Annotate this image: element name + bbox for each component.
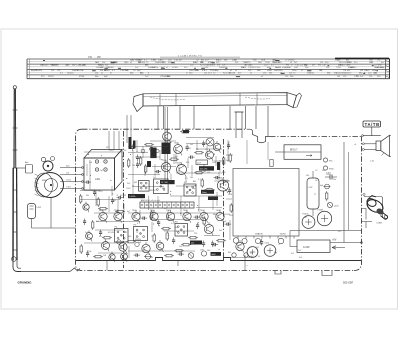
supply wire +9V bbox=[290, 231, 363, 247]
resistor R222 bbox=[128, 158, 130, 168]
svg-text:4n7: 4n7 bbox=[251, 256, 254, 258]
svg-text:33k: 33k bbox=[269, 73, 272, 75]
resistor R302 bbox=[166, 231, 168, 241]
resistor R224 bbox=[98, 208, 108, 210]
IF section divider bbox=[223, 139, 225, 258]
diode D210 bbox=[116, 240, 122, 244]
electrolytic C404 bbox=[317, 209, 331, 225]
svg-text:12k: 12k bbox=[289, 73, 292, 75]
svg-text:R66: R66 bbox=[222, 172, 225, 174]
svg-text:0.1: 0.1 bbox=[137, 223, 140, 225]
svg-text:68p: 68p bbox=[192, 188, 195, 190]
svg-text:100u: 100u bbox=[278, 70, 282, 72]
connector plate TA/TB bbox=[363, 121, 381, 136]
resistor R120 bbox=[93, 256, 103, 258]
IF transformer Fi1 bbox=[154, 177, 169, 194]
GRUNDIG logo bbox=[18, 281, 33, 285]
svg-text:15k: 15k bbox=[66, 173, 69, 175]
capacitor C130 bbox=[270, 160, 273, 167]
capacitor C234 bbox=[93, 190, 96, 197]
transistor T309 bbox=[204, 222, 213, 235]
transistor T313 bbox=[156, 240, 164, 252]
capacitor C236 bbox=[85, 181, 92, 184]
svg-text:C111: C111 bbox=[255, 247, 259, 249]
svg-text:33k: 33k bbox=[138, 239, 141, 241]
resistor R303 bbox=[188, 237, 198, 239]
svg-text:560: 560 bbox=[128, 236, 131, 238]
bus stub 3 bbox=[177, 261, 179, 266]
svg-text:AM: AM bbox=[193, 180, 196, 183]
resistor R231 bbox=[203, 216, 205, 226]
svg-text:8k2: 8k2 bbox=[134, 182, 137, 184]
IC U1 TBA audio amplifier bbox=[233, 169, 299, 239]
svg-text:15k: 15k bbox=[243, 67, 246, 69]
transistor T203 bbox=[177, 162, 187, 176]
transistor T304 bbox=[150, 210, 158, 223]
transistor T402 bbox=[233, 238, 239, 244]
capacitor C237 bbox=[99, 230, 102, 237]
svg-text:560: 560 bbox=[186, 162, 189, 164]
table header text 150 bbox=[88, 55, 203, 59]
svg-text:100u: 100u bbox=[292, 70, 296, 72]
resistor R223 bbox=[97, 197, 99, 207]
svg-text:IS250: IS250 bbox=[280, 234, 286, 236]
svg-text:47n: 47n bbox=[99, 236, 102, 238]
svg-text:6p8: 6p8 bbox=[138, 242, 141, 244]
label plate D455k (dark) bbox=[128, 194, 145, 198]
svg-text:L201: L201 bbox=[95, 178, 101, 181]
wire bus to speaker bbox=[344, 142, 349, 243]
electrolytic C406 bbox=[264, 243, 276, 257]
chassis support wires bbox=[158, 106, 268, 136]
coil L2 (dark) bbox=[129, 137, 132, 149]
tuner shaft wire bbox=[51, 198, 76, 229]
svg-text:8k2: 8k2 bbox=[175, 227, 178, 229]
resistor R304 bbox=[174, 250, 184, 252]
capacitor C402 pair bbox=[325, 173, 337, 180]
capacitor C241 bbox=[194, 216, 201, 219]
svg-text:12k: 12k bbox=[204, 73, 207, 75]
ground bus bbox=[76, 258, 361, 261]
capacitor C142 bbox=[200, 250, 207, 257]
svg-text:4 L-5 AB 1 MODELL F10: 4 L-5 AB 1 MODELL F10 bbox=[178, 55, 203, 58]
loudspeaker LS bbox=[370, 135, 391, 162]
svg-text:3n3: 3n3 bbox=[219, 230, 222, 232]
trimmer row bbox=[141, 147, 159, 153]
wire antenna to board bbox=[21, 268, 80, 272]
coil L3 (dark) bbox=[133, 141, 136, 149]
capacitor C231 bbox=[155, 170, 162, 173]
svg-text:2n2: 2n2 bbox=[169, 142, 172, 144]
coil L1 (dark) bbox=[147, 161, 151, 167]
resistor R233 bbox=[230, 203, 232, 213]
transistor T303 bbox=[132, 210, 140, 223]
transistor T312 bbox=[142, 242, 150, 255]
svg-text:10.7: 10.7 bbox=[315, 180, 319, 182]
capacitor C235 bbox=[111, 198, 114, 205]
svg-text:3n3: 3n3 bbox=[299, 257, 302, 259]
svg-text:150 . . . 188: 150 . . . 188 bbox=[88, 56, 101, 59]
transistor T202 bbox=[161, 160, 170, 173]
svg-text:12k: 12k bbox=[39, 70, 42, 72]
trimmer R401 bbox=[323, 158, 332, 162]
IF transformer Fi5 bbox=[134, 225, 148, 241]
mixer circle M1 bbox=[206, 138, 214, 146]
svg-text:KLBR: KLBR bbox=[377, 223, 383, 225]
resistor R305 bbox=[126, 241, 136, 243]
svg-text:47n: 47n bbox=[184, 67, 187, 69]
svg-text:3n3: 3n3 bbox=[150, 257, 153, 259]
svg-text:T2: T2 bbox=[314, 194, 316, 196]
transistor T403 bbox=[242, 238, 247, 243]
svg-text:T204: T204 bbox=[87, 251, 91, 253]
chassis / dial assembly bbox=[133, 93, 302, 112]
label plate (dark) AGC bbox=[211, 252, 222, 256]
capacitor C246 (dark) bbox=[183, 130, 189, 133]
svg-text:33k: 33k bbox=[135, 239, 138, 241]
resistor R403 bbox=[326, 191, 328, 201]
svg-text:455 kHz: 455 kHz bbox=[200, 169, 207, 171]
IF transformer Fi6 bbox=[175, 222, 188, 237]
transistor T305 bbox=[166, 210, 174, 223]
board edge tab 2 bbox=[275, 271, 281, 275]
transistor T404 bbox=[255, 238, 260, 243]
telescopic antenna ANT1 bbox=[12, 86, 22, 272]
svg-text:15k: 15k bbox=[212, 65, 215, 67]
svg-text:8k2: 8k2 bbox=[228, 252, 231, 254]
transistor T401 bbox=[236, 240, 244, 253]
board edge tab 1 bbox=[322, 271, 332, 276]
svg-text:AGC: AGC bbox=[212, 253, 217, 256]
capacitor C111 bbox=[86, 251, 89, 258]
capacitor C201 (dark) bbox=[150, 148, 156, 159]
svg-text:2SA101: 2SA101 bbox=[307, 72, 315, 75]
svg-text:1p5: 1p5 bbox=[100, 170, 103, 172]
svg-text:560: 560 bbox=[207, 250, 210, 252]
svg-text:C118: C118 bbox=[126, 188, 130, 190]
svg-text:15k: 15k bbox=[95, 73, 98, 75]
transistor T102 bbox=[86, 230, 93, 241]
oscillator coil L5 bbox=[206, 149, 214, 161]
electrolytic C405 bbox=[247, 247, 258, 258]
svg-text:FM: FM bbox=[318, 65, 321, 67]
ceramic filter CF10.7 bbox=[275, 145, 321, 160]
svg-text:47n: 47n bbox=[354, 62, 357, 64]
trimmer R404 bbox=[327, 202, 339, 207]
svg-text:15k: 15k bbox=[333, 179, 336, 181]
svg-text:4n7: 4n7 bbox=[164, 208, 167, 210]
IF transformer Fi2 bbox=[139, 181, 150, 192]
resistor R301 bbox=[153, 233, 155, 243]
interconnect wires bbox=[80, 138, 268, 259]
transistor T205 bbox=[213, 141, 221, 153]
capacitor C240 bbox=[172, 238, 175, 245]
earphone jack BU1 bbox=[362, 193, 388, 228]
svg-text:+9V: +9V bbox=[332, 239, 337, 242]
capacitor C140 bbox=[134, 254, 141, 257]
capacitor C244 bbox=[228, 188, 231, 195]
svg-text:C118: C118 bbox=[326, 174, 330, 176]
arrow into output box bbox=[332, 246, 345, 249]
svg-text:4k7: 4k7 bbox=[96, 221, 99, 223]
svg-text:TBA570: TBA570 bbox=[255, 233, 264, 236]
svg-text:C9: C9 bbox=[196, 149, 198, 151]
capacitor C202 (dark) bbox=[162, 139, 171, 155]
svg-text:P1k: P1k bbox=[329, 160, 332, 162]
svg-text:TA/TB: TA/TB bbox=[365, 122, 380, 127]
svg-text:1n5: 1n5 bbox=[85, 232, 88, 234]
filter box FL1 bbox=[196, 160, 208, 165]
svg-text:500 GB7: 500 GB7 bbox=[343, 281, 354, 285]
capacitor C110 bbox=[83, 219, 86, 226]
svg-text:MW: MW bbox=[257, 70, 261, 72]
wires into ferrite box bbox=[109, 131, 119, 150]
capacitor C302 bbox=[202, 241, 205, 248]
transistor T310 bbox=[102, 239, 110, 251]
svg-text:BC148: BC148 bbox=[120, 195, 126, 197]
svg-text:4n7: 4n7 bbox=[127, 211, 130, 213]
label plate LIN (dark) bbox=[208, 197, 218, 201]
capacitor C230 bbox=[202, 141, 205, 148]
svg-text:2n2: 2n2 bbox=[298, 250, 301, 252]
svg-text:TS403: TS403 bbox=[317, 209, 324, 211]
svg-text:560: 560 bbox=[306, 175, 309, 177]
resistor R235 bbox=[229, 153, 231, 163]
svg-text:0.1: 0.1 bbox=[185, 178, 188, 180]
label plate Ratio (dark) bbox=[201, 190, 214, 194]
svg-text:12k: 12k bbox=[102, 62, 105, 64]
svg-text:D 455k: D 455k bbox=[129, 196, 135, 198]
label plate 455kHz (dark) bbox=[199, 166, 214, 170]
resistor R220 bbox=[223, 156, 225, 166]
resistor R228 bbox=[151, 210, 153, 220]
svg-text:L204: L204 bbox=[212, 162, 216, 164]
volume control shaft bbox=[235, 112, 244, 138]
transistor T115 bbox=[109, 252, 115, 263]
component value labels bbox=[85, 142, 341, 259]
svg-text:C118: C118 bbox=[98, 191, 102, 193]
capacitor C301 bbox=[196, 223, 199, 230]
resistor R211 bbox=[201, 178, 203, 188]
svg-text:68p: 68p bbox=[274, 252, 277, 254]
transistor T307 bbox=[200, 210, 208, 223]
svg-text:FM: FM bbox=[86, 195, 89, 197]
capacitor C212 bbox=[136, 155, 139, 169]
transistor T306 bbox=[183, 210, 191, 223]
svg-text:3n3: 3n3 bbox=[190, 144, 193, 146]
svg-text:1k8: 1k8 bbox=[89, 162, 92, 164]
ferrite rod antenna L201 bbox=[84, 150, 122, 191]
drawing number text bbox=[343, 281, 354, 285]
svg-text:FM: FM bbox=[162, 188, 165, 190]
svg-text:C118: C118 bbox=[91, 190, 95, 192]
IF transformer Fi3 bbox=[184, 182, 196, 196]
resistor R230 bbox=[181, 244, 191, 246]
svg-text:R12: R12 bbox=[338, 231, 341, 233]
output label box bbox=[297, 240, 330, 253]
capacitor C407 bbox=[260, 239, 263, 246]
svg-text:12k: 12k bbox=[51, 70, 54, 72]
svg-text:47n: 47n bbox=[220, 180, 223, 182]
svg-text:100u: 100u bbox=[224, 182, 228, 184]
svg-text:6p8: 6p8 bbox=[320, 185, 323, 187]
wires into board top bbox=[127, 107, 168, 180]
svg-text:Ant: Ant bbox=[25, 161, 29, 164]
capacitor C220 bbox=[214, 176, 221, 179]
bus stub 2 bbox=[245, 255, 248, 271]
transistor T101 bbox=[83, 202, 89, 213]
svg-text:12k: 12k bbox=[125, 70, 128, 72]
svg-text:L7: L7 bbox=[228, 142, 230, 144]
resistor R225 bbox=[115, 211, 125, 213]
svg-text:68p: 68p bbox=[213, 214, 216, 216]
svg-text:110: 110 bbox=[250, 253, 253, 255]
svg-text:C111: C111 bbox=[123, 232, 127, 234]
svg-text:BC148: BC148 bbox=[229, 73, 236, 75]
parts list table bbox=[27, 57, 390, 79]
resistor R115 bbox=[80, 194, 82, 204]
svg-text:33k: 33k bbox=[100, 70, 103, 72]
transistor T301 bbox=[99, 210, 107, 223]
svg-text:12k: 12k bbox=[205, 67, 208, 69]
capacitor C141 bbox=[178, 253, 185, 256]
svg-text:0.47: 0.47 bbox=[171, 223, 175, 225]
svg-text:u: u bbox=[247, 265, 248, 267]
resistor R232 bbox=[216, 240, 226, 242]
svg-text:220: 220 bbox=[207, 172, 210, 174]
svg-text:T2: T2 bbox=[151, 236, 153, 238]
electrolytic C401 box bbox=[307, 171, 319, 216]
tuner to ferrite antenna wires bbox=[60, 166, 84, 190]
band switch contact strip S1 bbox=[140, 199, 194, 208]
resistor R226 bbox=[92, 220, 94, 230]
ceramic filter CF2 (dark) bbox=[160, 180, 175, 184]
capacitor C233 bbox=[117, 196, 124, 199]
svg-text:12k: 12k bbox=[300, 65, 303, 67]
screw hole right bbox=[244, 253, 248, 257]
svg-text:12k: 12k bbox=[179, 246, 182, 248]
svg-text:C9: C9 bbox=[260, 244, 262, 246]
svg-text:Det: Det bbox=[191, 242, 195, 245]
transistor T204 bbox=[217, 178, 228, 193]
svg-text:L204: L204 bbox=[228, 194, 232, 196]
transistor T201 bbox=[174, 142, 183, 155]
svg-text:L204: L204 bbox=[226, 214, 230, 216]
svg-text:TBA570: TBA570 bbox=[243, 61, 251, 64]
svg-text:AM FM u1 u2 a b c d: AM FM u1 u2 a b c d bbox=[141, 199, 160, 202]
resistor R202 bbox=[145, 164, 147, 174]
svg-text:3n3: 3n3 bbox=[127, 183, 130, 185]
resistor R204 bbox=[194, 152, 204, 154]
svg-text:68p: 68p bbox=[226, 180, 229, 182]
resistor R210 bbox=[194, 172, 204, 174]
transistor T302 bbox=[114, 210, 122, 223]
svg-text:6p8: 6p8 bbox=[238, 250, 241, 252]
svg-text:BF195: BF195 bbox=[150, 190, 156, 192]
varistor D4 bbox=[188, 253, 194, 259]
capacitor C232 bbox=[131, 145, 134, 152]
svg-text:T2: T2 bbox=[136, 232, 138, 234]
svg-text:C118: C118 bbox=[109, 150, 113, 152]
IF transformer Fi4 bbox=[115, 227, 129, 243]
svg-text:12k: 12k bbox=[369, 76, 372, 78]
capacitor C303 bbox=[212, 243, 219, 246]
trimmer L202 bbox=[28, 204, 52, 229]
svg-text:33k: 33k bbox=[326, 67, 329, 69]
electrolytic C403 bbox=[302, 214, 315, 229]
svg-text:1k8: 1k8 bbox=[103, 255, 106, 257]
svg-text:6p8: 6p8 bbox=[223, 221, 226, 223]
capacitor C238 bbox=[141, 217, 148, 220]
capacitor C210 bbox=[186, 145, 189, 152]
resistor R201 bbox=[140, 156, 142, 166]
svg-text:15k: 15k bbox=[132, 165, 135, 167]
diode D201 bbox=[204, 188, 215, 192]
svg-text:R211 1k2: R211 1k2 bbox=[252, 67, 261, 69]
capacitor C211 bbox=[188, 156, 195, 159]
transistor T405 bbox=[278, 238, 284, 244]
svg-text:220: 220 bbox=[194, 233, 197, 235]
resistor R227 bbox=[102, 237, 112, 239]
bus stub 1 bbox=[106, 261, 108, 271]
svg-text:LW: LW bbox=[360, 70, 363, 72]
speaker feed wires bbox=[354, 135, 381, 151]
svg-text:0.1: 0.1 bbox=[198, 179, 201, 181]
svg-text:47n: 47n bbox=[125, 253, 128, 255]
resistor R234 bbox=[180, 131, 190, 133]
svg-text:BC148: BC148 bbox=[108, 232, 114, 234]
svg-text:33k: 33k bbox=[142, 62, 145, 64]
svg-text:0.2W: 0.2W bbox=[303, 245, 310, 249]
svg-text:1n5: 1n5 bbox=[113, 200, 116, 202]
svg-text:4n7: 4n7 bbox=[304, 217, 307, 219]
trimmer R402 bbox=[323, 166, 334, 170]
AM/FM section divider bbox=[123, 131, 125, 268]
svg-text:15k: 15k bbox=[322, 170, 325, 172]
transistor T311 bbox=[119, 241, 127, 254]
resistor R203 bbox=[169, 158, 179, 160]
capacitor C245 bbox=[227, 143, 230, 150]
svg-text:4n7: 4n7 bbox=[175, 156, 178, 158]
transistor T206 bbox=[163, 130, 172, 143]
screw hole left bbox=[232, 253, 236, 257]
svg-text:33k: 33k bbox=[167, 76, 170, 78]
diode D401 bbox=[324, 184, 331, 189]
printed circuit board outline bbox=[76, 129, 362, 270]
svg-text:C77: C77 bbox=[239, 245, 242, 247]
resistor R229 bbox=[161, 228, 171, 230]
diode D211 bbox=[135, 242, 139, 246]
svg-text:1k2: 1k2 bbox=[188, 148, 191, 150]
capacitor C243 bbox=[225, 223, 232, 226]
svg-text:MW1: MW1 bbox=[42, 180, 48, 182]
resistor R121 bbox=[164, 255, 174, 257]
coil L4 (dark) bbox=[217, 162, 220, 170]
svg-text:12k: 12k bbox=[356, 76, 359, 78]
svg-text:R12: R12 bbox=[106, 147, 109, 149]
capacitor C239 bbox=[157, 220, 160, 227]
svg-text:GRUNDIG: GRUNDIG bbox=[18, 281, 33, 285]
svg-text:2n2: 2n2 bbox=[291, 253, 294, 255]
svg-text:0.1: 0.1 bbox=[176, 231, 179, 233]
svg-text:TS405+: TS405+ bbox=[302, 214, 310, 216]
transistor T308 bbox=[216, 210, 224, 223]
svg-text:BF10.7: BF10.7 bbox=[290, 150, 298, 152]
svg-text:4k7: 4k7 bbox=[186, 218, 189, 220]
svg-text:33k: 33k bbox=[195, 70, 198, 72]
svg-text:4k7: 4k7 bbox=[159, 250, 162, 252]
svg-text:C9: C9 bbox=[315, 170, 317, 172]
